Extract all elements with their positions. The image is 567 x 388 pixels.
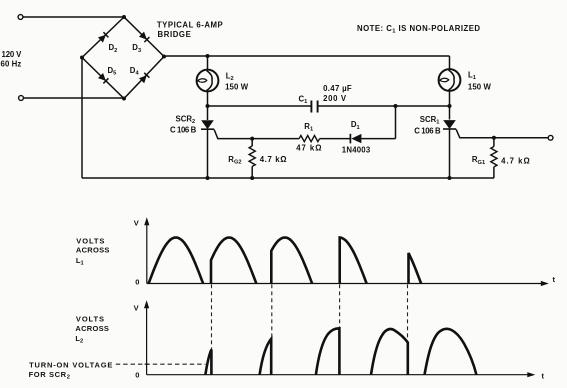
terminal bottom-left (19, 96, 24, 101)
wire RG1 drop (493, 138, 495, 147)
resistor R1 (299, 136, 319, 142)
wire D1 riser (395, 106, 397, 139)
svg-text:SCR1: SCR1 (420, 115, 440, 126)
svg-text:C 106 B: C 106 B (170, 126, 197, 135)
svg-text:120 V: 120 V (2, 50, 23, 59)
dashed sync line 1 (211, 284, 213, 374)
SCR1 cathode bar (443, 128, 456, 130)
svg-text:R1: R1 (304, 122, 313, 133)
wire RG2 drop (251, 139, 253, 146)
terminal gate right (548, 135, 553, 140)
svg-text:RG1: RG1 (472, 155, 485, 166)
wire L1 to node (449, 91, 451, 120)
wire SCR1 cathode down (449, 129, 451, 178)
L1 waveform hump 1 (149, 238, 204, 284)
svg-text:150 W: 150 W (468, 82, 492, 91)
svg-text:NOTE: C1 IS NON-POLARIZED: NOTE: C1 IS NON-POLARIZED (357, 24, 480, 35)
diode D2 (98, 32, 108, 42)
wire L1 branch (449, 56, 451, 69)
svg-text:1N4003: 1N4003 (342, 145, 371, 154)
wire RG1 to rail (493, 167, 495, 178)
junction bridge negative node (80, 56, 84, 60)
diode D4 (139, 73, 149, 83)
dashed sync line 4 (407, 284, 409, 374)
wire SCR1 gate (456, 129, 548, 137)
wire R1 to D1 (320, 138, 350, 140)
svg-text:V: V (134, 219, 139, 228)
svg-text:TYPICAL 6-AMP: TYPICAL 6-AMP (157, 20, 223, 29)
svg-text:t: t (553, 275, 556, 284)
diode D1 bar (349, 134, 351, 144)
L2 waveform pulse 4 (371, 329, 408, 375)
svg-text:D5: D5 (108, 66, 117, 77)
resistor RG2 (249, 146, 255, 166)
V-axis top plot (146, 221, 148, 284)
svg-text:60 Hz: 60 Hz (1, 60, 22, 69)
junction L2/SCR2/C1 node (206, 104, 210, 108)
svg-text:VOLTS: VOLTS (76, 315, 104, 324)
schematic labels (1, 20, 530, 166)
turn-on voltage dash line (116, 363, 206, 365)
junction bridge bottom AC node (122, 97, 126, 101)
junction bridge positive node (162, 55, 166, 59)
junction SCR1 cathode rail (448, 176, 452, 180)
diode D3 (139, 32, 149, 42)
junction C1/D1 node (394, 104, 398, 108)
wire top input (23, 16, 124, 18)
wire D1 to corner (361, 138, 395, 140)
lamp L2 (197, 70, 219, 92)
svg-text:4.7 kΩ: 4.7 kΩ (501, 156, 530, 165)
wire SCR2 cathode down (207, 129, 209, 178)
svg-text:C 106 B: C 106 B (414, 127, 441, 136)
wire C1 line left (208, 105, 311, 107)
L1 waveform hump 5 (409, 253, 422, 284)
svg-text:0.47 µF: 0.47 µF (323, 84, 352, 93)
svg-text:4.7 kΩ: 4.7 kΩ (260, 155, 287, 164)
arrow t-axis top plot (541, 281, 549, 286)
L1 waveform hump 3 (271, 238, 312, 284)
wire bottom input (24, 97, 125, 99)
L1 waveform hump 2 (211, 238, 256, 284)
svg-text:t: t (542, 371, 545, 380)
diode D5 (98, 73, 108, 83)
wire RG2 to rail (251, 166, 253, 178)
svg-text:RG2: RG2 (228, 155, 241, 166)
dashed sync line 3 (339, 284, 341, 374)
svg-text:TURN-ON VOLTAGE: TURN-ON VOLTAGE (29, 360, 112, 369)
svg-text:V: V (134, 304, 139, 313)
svg-text:D1: D1 (351, 120, 360, 131)
plot labels (29, 219, 556, 381)
terminal top-left (18, 15, 23, 20)
arrow V-axis bottom plot (144, 300, 149, 308)
junction SCR2 gate / RG2 node (250, 137, 254, 141)
junction RG2 rail (250, 176, 254, 180)
svg-text:C1: C1 (299, 95, 308, 106)
tick turn-on level (145, 363, 149, 365)
capacitor C1 (311, 101, 317, 113)
svg-text:L1: L1 (468, 70, 476, 81)
svg-text:ACROSS: ACROSS (76, 246, 110, 255)
svg-text:SCR2: SCR2 (176, 114, 196, 125)
svg-text:FOR SCR2: FOR SCR2 (29, 370, 70, 381)
resistor RG1 (491, 147, 497, 167)
SCR2 triangle (201, 120, 214, 129)
wire left-node down (81, 58, 83, 179)
svg-text:L1: L1 (76, 256, 84, 267)
wire bottom rail (82, 177, 494, 179)
t-axis bottom plot (147, 374, 532, 376)
SCR1 triangle (443, 120, 456, 129)
junction SCR2 cathode rail (206, 176, 210, 180)
svg-text:L2: L2 (226, 71, 234, 82)
L2 waveform pulse 3 (316, 328, 340, 374)
svg-text:D2: D2 (109, 43, 118, 54)
bridge diamond (82, 17, 164, 99)
svg-text:D4: D4 (130, 66, 140, 77)
svg-text:BRIDGE: BRIDGE (158, 30, 191, 39)
junction SCR1 gate / RG1 node (492, 136, 496, 140)
wire C1 line right (319, 105, 450, 107)
L2 waveform pulse 1 (205, 350, 211, 375)
svg-text:ACROSS: ACROSS (75, 324, 109, 333)
arrow V-axis top plot (144, 217, 149, 225)
svg-text:0: 0 (135, 370, 139, 379)
L2 waveform pulse 5 (425, 329, 477, 375)
L1 waveform hump 4 (340, 238, 367, 284)
wire SCR2 gate (214, 130, 299, 139)
diode D1 triangle (351, 134, 361, 143)
t-axis top plot (147, 283, 545, 285)
junction bridge top AC node (122, 15, 126, 19)
svg-text:200 V: 200 V (323, 94, 347, 103)
svg-text:D3: D3 (132, 43, 141, 54)
L2 waveform pulse 2 (260, 339, 272, 375)
junction L1/SCR1/C1 node (448, 104, 452, 108)
wire L2 branch top (207, 56, 209, 70)
V-axis bottom plot (146, 304, 148, 375)
svg-text:0: 0 (135, 278, 139, 287)
junction top rail L2 tap (206, 54, 210, 58)
wire L2 to node (207, 91, 209, 120)
arrow t-axis bottom plot (527, 372, 535, 377)
waveform plots (147, 221, 545, 375)
wire top rail (164, 55, 450, 58)
SCR2 cathode bar (201, 128, 214, 130)
dashed sync line 2 (271, 284, 273, 374)
svg-text:L2: L2 (75, 334, 83, 345)
lamp L1 (439, 69, 461, 91)
svg-text:150 W: 150 W (225, 82, 249, 91)
svg-text:VOLTS: VOLTS (76, 236, 104, 245)
svg-text:47 kΩ: 47 kΩ (296, 144, 321, 153)
